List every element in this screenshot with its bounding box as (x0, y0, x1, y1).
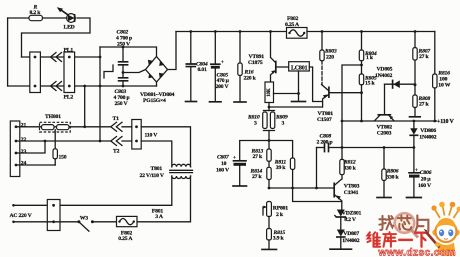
resistor R807 27k (414, 30, 417, 33)
svg-text:+110 V: +110 V (437, 119, 454, 125)
resistor R816 100 10W (434, 32, 436, 75)
resistor R803 220 dash-dot (321, 30, 324, 33)
resistor R804 1k (360, 30, 363, 33)
resistor R812 330k (340, 159, 344, 174)
svg-text:1N4002: 1N4002 (375, 73, 392, 79)
resistor R814 27k (267, 167, 271, 179)
svg-text:3 A: 3 A (155, 214, 164, 220)
ground R815 (262, 248, 277, 250)
transistor VT802 C2003 (384, 84, 386, 114)
svg-text:39 k: 39 k (276, 165, 287, 171)
resistor R805 15k (361, 65, 363, 74)
svg-text:www.dzsc.com: www.dzsc.com (378, 247, 456, 257)
connector 110V tube (132, 120, 141, 150)
wire primary left (141, 141, 172, 167)
wire primary right (141, 127, 190, 167)
resistor R813 27k (268, 139, 271, 142)
wire top rail left (176, 31, 287, 33)
node PL2-line21 drop (83, 85, 86, 88)
transformer T801 primary (172, 164, 191, 167)
svg-text:250 V: 250 V (117, 41, 131, 47)
svg-text:LED: LED (64, 25, 75, 31)
svg-text:VD805: VD805 (377, 67, 393, 73)
resistor 10K box (265, 82, 274, 103)
svg-text:1N4002: 1N4002 (342, 238, 359, 244)
node PL1 riser / drop x100 (99, 47, 101, 141)
svg-text:15 k: 15 k (365, 80, 376, 86)
wire pair bottom to J1 (268, 131, 270, 141)
svg-text:1N4002: 1N4002 (419, 135, 436, 141)
svg-text:TH801: TH801 (45, 114, 61, 120)
arrow from LED (61, 10, 68, 15)
wire VT801 emitter line (269, 106, 322, 108)
svg-text:C1941: C1941 (344, 190, 359, 196)
svg-text:0.25 A: 0.25 A (285, 22, 300, 28)
wire R811 bottom U to VT803 emitter (293, 188, 342, 202)
zener VDZ801 8.2V (337, 210, 345, 217)
wire VT801 base drop to VT803 base line (316, 148, 318, 189)
svg-text:T1: T1 (113, 116, 120, 122)
svg-text:8.2 k: 8.2 k (30, 10, 42, 16)
capacitor C805 electrolytic (214, 30, 217, 33)
svg-text:+: + (221, 59, 224, 65)
mascot pen (426, 232, 440, 248)
svg-text:3: 3 (254, 120, 257, 126)
wire +110V line (342, 120, 437, 122)
connector block pins 21-24 (10, 121, 19, 177)
svg-text:PG15G×4: PG15G×4 (143, 98, 166, 104)
svg-text:+: + (233, 155, 236, 161)
svg-text:C1507: C1507 (317, 117, 332, 123)
svg-text:PL1: PL1 (64, 47, 74, 53)
svg-text:3.9 k: 3.9 k (273, 235, 285, 241)
wire line 23 (16, 141, 45, 153)
WATERMARK dzsc (368, 202, 460, 257)
svg-text:27 k: 27 k (419, 54, 430, 60)
svg-text:27 k: 27 k (252, 174, 263, 180)
svg-text:1 k: 1 k (366, 55, 374, 61)
svg-text:10: 10 (221, 161, 227, 167)
diode VD806 1N4002 (413, 120, 416, 123)
chevrons T2 (111, 137, 122, 146)
svg-text:10 W: 10 W (438, 82, 450, 88)
svg-text:+: + (415, 167, 418, 173)
wire LC801 right pin to VT801 (309, 67, 322, 102)
wire AC bottom to switch (14, 221, 79, 223)
watermark text 找芯片 (379, 215, 428, 231)
svg-text:220 k: 220 k (244, 75, 257, 81)
svg-text:110 V: 110 V (145, 132, 159, 138)
svg-text:T2: T2 (113, 149, 120, 155)
svg-text:C807: C807 (217, 155, 230, 161)
svg-text:2 200 p: 2 200 p (317, 139, 333, 145)
svg-text:22: 22 (21, 137, 27, 143)
svg-text:VDZ801: VDZ801 (342, 211, 362, 217)
capacitor C803 (122, 71, 125, 74)
svg-text:VT803: VT803 (344, 184, 360, 190)
svg-text:330 k: 330 k (386, 175, 399, 181)
potentiometer RP801 2k (267, 202, 272, 217)
fuse F802 bottom 0.25A (92, 221, 116, 223)
chevrons PL1 (51, 53, 62, 62)
mascot (431, 202, 460, 256)
svg-text:F802: F802 (287, 16, 299, 22)
resistor R811 39k (269, 141, 293, 159)
svg-text:C2003: C2003 (377, 130, 392, 136)
thermistor TH801 (40, 122, 71, 132)
wire R804 junction to x342 column (342, 65, 362, 179)
resistor R16 220k (239, 30, 242, 33)
hook symbol (104, 65, 113, 78)
resistor R 8.2k (29, 15, 43, 20)
IC LC801 (289, 62, 310, 71)
resistor 150 (54, 130, 56, 149)
wire PL2 row (8, 85, 157, 87)
svg-text:RP801: RP801 (273, 205, 288, 211)
wire LED loop right/bottom (22, 18, 91, 57)
wire LC801 bottom pin (298, 71, 300, 101)
capacitor C804 (189, 30, 192, 33)
resistor R815 3.9k (267, 229, 272, 241)
svg-text:LC801: LC801 (291, 65, 308, 71)
chevrons PL2 (51, 82, 62, 91)
ground VD807 (330, 248, 352, 250)
transformer T801 core (170, 170, 193, 172)
wire PL1 row (22, 56, 101, 58)
wire bridge bottom to PL2 rail (156, 82, 158, 86)
svg-text:150: 150 (59, 155, 67, 161)
transistor VT803 C1941 (333, 183, 335, 196)
capacitor C808 2200p (317, 147, 325, 149)
svg-text:27 k: 27 k (253, 154, 264, 160)
svg-text:T801: T801 (151, 166, 163, 172)
wire secondary right down (137, 176, 191, 222)
wire LED loop top (8, 17, 29, 19)
connector PL1/PL2 right tube (64, 52, 75, 93)
wire line 22 (16, 140, 111, 142)
svg-text:20 µ: 20 µ (421, 176, 432, 182)
svg-text:W3: W3 (80, 216, 88, 222)
capacitor C806 20u 160V (413, 148, 415, 173)
svg-text:23: 23 (21, 149, 27, 155)
transistor VT801 C1507 (328, 87, 330, 97)
wire line 24 (16, 164, 55, 166)
transformer T801 secondary (172, 176, 191, 179)
svg-text:8.2 V: 8.2 V (344, 217, 357, 223)
capacitor C807 10/160V (240, 141, 269, 161)
svg-text:VD806: VD806 (420, 128, 436, 134)
svg-text:C1875: C1875 (248, 60, 263, 66)
svg-text:250 V: 250 V (115, 101, 129, 107)
resistor R806 330k (383, 146, 386, 149)
wire VT803 base line (269, 187, 334, 189)
wire line 21 (16, 126, 111, 128)
svg-text:PL2: PL2 (64, 94, 74, 100)
resistor R808 27k (413, 95, 417, 108)
wire secondary left to F801 line (14, 176, 172, 205)
wire LED loop left (7, 18, 9, 86)
svg-text:2 k: 2 k (276, 212, 284, 218)
LED VL (67, 14, 76, 23)
svg-text:AC 220 V: AC 220 V (10, 213, 33, 219)
svg-text:0.25 A: 0.25 A (118, 236, 133, 242)
svg-text:330 k: 330 k (344, 166, 357, 172)
connector PL1/PL2 left tube (30, 52, 41, 93)
svg-text:VD807: VD807 (343, 231, 359, 237)
resistor pair R810 R809 (264, 111, 275, 131)
bridge rectifier VD801-VD804 (146, 57, 168, 83)
chevrons T1 (111, 122, 122, 131)
svg-text:21: 21 (21, 122, 27, 128)
svg-text:200 V: 200 V (216, 84, 230, 90)
diode VD807 1N4002 (337, 230, 345, 237)
svg-text:160 V: 160 V (418, 183, 432, 189)
wire bridge right to top rail (168, 32, 177, 70)
svg-text:0.01: 0.01 (198, 67, 208, 73)
diode VD805 1N4002 (385, 83, 416, 85)
svg-text:220: 220 (326, 54, 334, 60)
wire cap midpoint to bridge left (123, 70, 146, 73)
wire (43, 17, 68, 19)
svg-text:22 V/110 V: 22 V/110 V (140, 173, 165, 179)
ground LC801 (292, 101, 306, 103)
connector AC tube (47, 200, 60, 231)
svg-text:160 V: 160 V (216, 168, 230, 174)
wire top rail right of fuse (307, 31, 435, 33)
watermark text 维库一下 (368, 232, 428, 247)
wire AC rail to bridge top (100, 47, 157, 57)
wire 10K bottom (268, 103, 270, 111)
svg-text:27 k: 27 k (419, 102, 430, 108)
wire 10K to LC801 node (274, 93, 299, 95)
fuse F802 top 0.25A (287, 28, 308, 39)
svg-text:3: 3 (282, 120, 285, 126)
switch W3 (77, 220, 80, 223)
svg-text:C806: C806 (420, 170, 432, 176)
capacitor C802 (122, 47, 124, 61)
svg-text:10K: 10K (267, 88, 272, 97)
